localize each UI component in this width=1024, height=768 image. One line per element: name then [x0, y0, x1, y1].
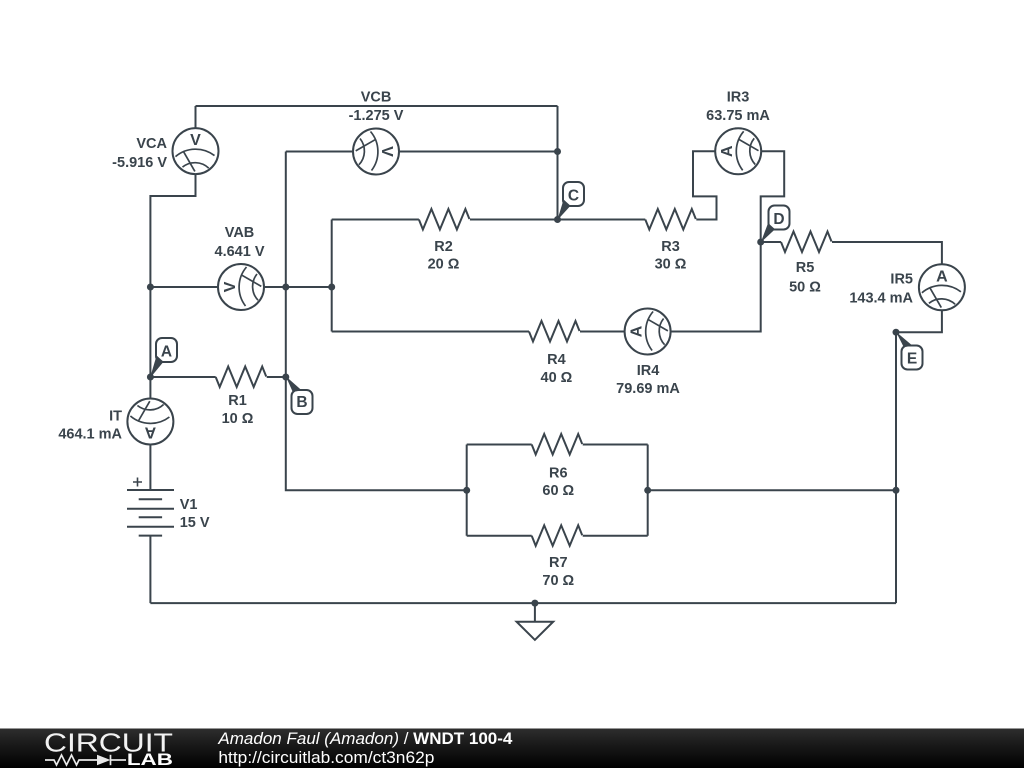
svg-text:D: D [773, 211, 784, 228]
wire VCA bottom jog down to IT [150, 174, 195, 398]
svg-text:464.1 mA: 464.1 mA [58, 427, 122, 443]
wire C to R3 [558, 219, 646, 221]
svg-text:V: V [378, 146, 395, 157]
resistor R2 [419, 209, 470, 273]
wire R6 block right vertical [647, 445, 649, 536]
svg-text:VAB: VAB [225, 225, 255, 241]
node C [557, 182, 584, 220]
svg-text:15 V: 15 V [180, 515, 210, 531]
wire VCB drop to R6 block [286, 152, 467, 491]
svg-text:20 Ω: 20 Ω [428, 257, 460, 273]
svg-text:R1: R1 [228, 393, 247, 409]
wire R2 row left [332, 219, 419, 221]
footer bar [0, 729, 1024, 768]
logo doodle wire [45, 755, 126, 765]
voltmeter VCA [112, 128, 218, 174]
svg-text:IR3: IR3 [727, 89, 750, 105]
wire R3 to IR3 staircase [693, 151, 717, 219]
svg-text:A: A [719, 146, 736, 158]
resistor R6 [532, 434, 583, 499]
wire R1 to B [267, 376, 286, 378]
wire IR4 right up to D [671, 242, 761, 332]
resistor R5 [781, 232, 832, 296]
wire R2 to C [470, 219, 558, 221]
svg-text:60 Ω: 60 Ω [542, 483, 574, 499]
wire R4 to IR4 [580, 331, 625, 333]
wire R6 branch right [583, 444, 648, 446]
wire A to R1 [150, 376, 215, 378]
svg-text:A: A [629, 326, 646, 338]
ammeter IT [58, 399, 173, 445]
ammeter IR5 [849, 264, 965, 310]
wire R2 left drop [331, 220, 333, 332]
wire battery bottom stub [149, 536, 151, 604]
wire top bus [196, 105, 558, 107]
node E [896, 332, 923, 370]
svg-text:R2: R2 [434, 239, 453, 255]
svg-text:63.75 mA: 63.75 mA [706, 108, 770, 124]
wire VCA top stub [195, 106, 197, 128]
wire bottom bus [150, 602, 896, 604]
ammeter IR4 [616, 309, 680, 398]
wire R6 block left vertical [466, 445, 468, 536]
svg-text:VCB: VCB [361, 90, 392, 106]
voltmeter VCB [349, 90, 404, 175]
svg-text:V1: V1 [180, 497, 198, 513]
wire R7 branch left [467, 535, 532, 537]
svg-text:IR5: IR5 [890, 272, 913, 288]
wire mid right bus [648, 489, 896, 491]
wire IT to battery [149, 445, 151, 491]
svg-text:R4: R4 [547, 352, 566, 368]
svg-text:-1.275 V: -1.275 V [349, 108, 404, 124]
svg-text:B: B [296, 394, 307, 411]
wire VAB right [264, 286, 332, 288]
svg-text:Amadon Faul (Amadon) / WNDT 10: Amadon Faul (Amadon) / WNDT 100-4 [217, 729, 513, 748]
svg-text:A: A [936, 268, 948, 285]
wire R4 row left [332, 331, 529, 333]
wire E drop [895, 332, 897, 603]
svg-text:79.69 mA: 79.69 mA [616, 381, 680, 397]
svg-text:143.4 mA: 143.4 mA [849, 290, 913, 306]
svg-text:R6: R6 [549, 466, 568, 482]
node B [286, 376, 313, 414]
svg-text:IR4: IR4 [637, 363, 660, 379]
svg-text:C: C [568, 188, 579, 205]
resistor R4 [529, 321, 580, 386]
wire IR5 bottom to E [896, 310, 942, 332]
wire R7 branch right [583, 535, 648, 537]
svg-text:E: E [907, 351, 917, 368]
svg-text:R7: R7 [549, 555, 568, 571]
svg-text:70 Ω: 70 Ω [542, 573, 574, 589]
wire VCB left [286, 151, 353, 153]
svg-text:10 Ω: 10 Ω [222, 411, 254, 427]
ground [517, 603, 554, 640]
wire VAB left [150, 286, 218, 288]
wire IR3 right staircase to D [761, 151, 785, 242]
svg-text:R3: R3 [661, 239, 680, 255]
svg-text:R5: R5 [796, 260, 815, 276]
svg-text:4.641 V: 4.641 V [215, 244, 265, 260]
svg-text:IT: IT [109, 408, 122, 424]
resistor R7 [532, 525, 583, 589]
wire C vertical [557, 106, 559, 220]
svg-text:VCA: VCA [136, 136, 167, 152]
battery V1 [127, 478, 210, 536]
svg-text:V: V [222, 282, 239, 293]
wire R6 branch left [467, 444, 532, 446]
svg-text:30 Ω: 30 Ω [655, 257, 687, 273]
wire D to R5 [761, 241, 781, 243]
voltmeter VAB [215, 225, 265, 310]
svg-text:A: A [161, 344, 172, 361]
wire R5 to IR5 [832, 242, 942, 264]
svg-text:A: A [145, 424, 157, 441]
resistor R1 [216, 367, 267, 428]
node D [761, 206, 790, 243]
svg-text:50 Ω: 50 Ω [789, 279, 821, 295]
resistor R3 [645, 209, 696, 273]
svg-text:http://circuitlab.com/ct3n62p: http://circuitlab.com/ct3n62p [218, 749, 434, 767]
ammeter IR3 [706, 89, 770, 174]
svg-text:LAB: LAB [127, 751, 173, 768]
svg-text:-5.916 V: -5.916 V [112, 155, 167, 171]
wire VCB right [399, 151, 558, 153]
svg-text:40 Ω: 40 Ω [541, 370, 573, 386]
svg-text:V: V [190, 132, 201, 149]
node A [150, 338, 177, 378]
